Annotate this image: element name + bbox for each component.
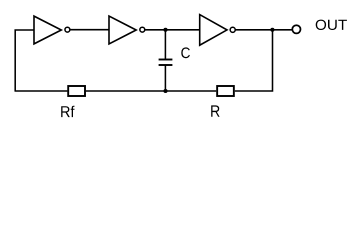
wire: U2 output to U3 input <box>145 29 200 31</box>
label C <box>181 47 190 58</box>
node B: junction top wire to R branch <box>270 28 274 32</box>
node A: junction top wire to capacitor <box>163 28 167 32</box>
wire: R to node B (bottom right and right vertical) <box>235 30 273 91</box>
inverter U3 <box>200 15 236 46</box>
label Rf <box>61 106 74 117</box>
wire: U1 output to U2 input <box>70 29 109 31</box>
label OUT <box>316 20 347 30</box>
capacitor C <box>159 60 173 66</box>
node C: junction bottom wire to capacitor <box>163 89 167 93</box>
wire: feedback left (input to U1, left vertical) <box>15 30 34 91</box>
resistor R <box>217 86 234 96</box>
wire: Rf to node C <box>86 90 166 92</box>
wire: capacitor bottom plate down to node C <box>164 65 166 91</box>
inverter U1 <box>34 16 70 44</box>
wire: U3 output to output terminal <box>235 29 292 31</box>
resistor Rf <box>68 86 85 96</box>
label R <box>211 105 219 116</box>
output terminal <box>292 25 300 33</box>
wire: node A down to capacitor top plate <box>164 30 166 60</box>
wire: bottom left segment (feedback node to Rf) <box>15 90 68 92</box>
wire: node C to resistor R <box>166 90 217 92</box>
inverter U2 <box>109 16 145 44</box>
